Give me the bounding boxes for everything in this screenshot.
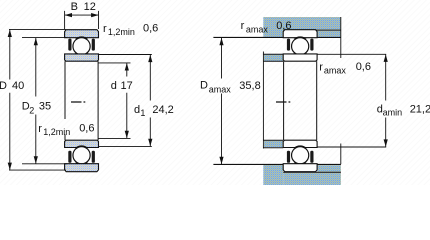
mounted inner ring bottom groove: [291, 146, 310, 165]
bearing outer ring bottom: [65, 164, 99, 172]
inner ring bottom groove: [72, 146, 91, 165]
svg-text:amin: amin: [383, 108, 403, 118]
mounted seal slot left bottom: [287, 151, 290, 163]
dimension Damax: line: [221, 38, 223, 164]
housing bottom band: [283, 173, 341, 185]
axis center mark: [71, 101, 85, 103]
shaft shoulder bottom outline: [263, 140, 283, 148]
svg-text:17: 17: [121, 80, 133, 92]
svg-text:0,6: 0,6: [276, 20, 291, 32]
housing shoulder line top (Da level): [213, 36, 341, 38]
dimension damin: extension lines: [317, 54, 386, 147]
mounted ball bottom: [292, 147, 309, 164]
housing shoulder line bottom (Da level): [213, 163, 341, 165]
outer ring top groove: [72, 37, 91, 56]
mounted seal slot right bottom: [310, 151, 313, 163]
svg-text:amax: amax: [246, 24, 269, 34]
mounted seal slot left top: [287, 39, 290, 51]
svg-text:0,6: 0,6: [79, 123, 94, 135]
seal slot right bottom: [92, 151, 95, 163]
svg-text:amax: amax: [324, 66, 347, 76]
svg-text:35: 35: [39, 101, 51, 113]
housing shoulder bottom-right: [317, 165, 341, 172]
svg-text:r: r: [38, 123, 42, 135]
svg-text:r: r: [103, 23, 107, 35]
housing shoulder top-left: [263, 29, 283, 37]
dimension B: line: [65, 14, 99, 16]
svg-text:D: D: [200, 80, 208, 92]
dimension d: arrows: [125, 63, 129, 138]
bearing inner ring bottom: [65, 140, 99, 147]
axis center mark right: [276, 101, 290, 103]
housing cut edge right: [340, 17, 342, 58]
housing bore line top: [283, 29, 341, 31]
svg-text:40: 40: [12, 80, 24, 92]
svg-text:d: d: [111, 80, 117, 92]
mounted seal slot right top: [310, 39, 313, 51]
svg-text:2: 2: [29, 105, 34, 115]
housing cut edge bottom-right: [340, 144, 342, 165]
seal slot left bottom: [68, 151, 71, 163]
svg-text:d: d: [134, 104, 140, 116]
shaft shoulder top outline: [263, 54, 283, 61]
dimension damin: arrows: [384, 55, 388, 147]
svg-text:amax: amax: [209, 84, 232, 94]
svg-text:0,6: 0,6: [356, 61, 371, 73]
mounted bearing right face line: [316, 61, 318, 140]
shaft shoulder top: [264, 55, 283, 61]
svg-text:35,8: 35,8: [239, 80, 260, 92]
housing bore line bottom: [283, 171, 341, 173]
svg-text:r: r: [319, 61, 323, 73]
ball bottom: [73, 147, 90, 164]
dimension D: arrows: [8, 30, 12, 170]
dimension Damax: arrows: [219, 38, 223, 164]
svg-text:21,2: 21,2: [410, 103, 430, 115]
dimension D: line: [9, 30, 11, 170]
dimension D2: arrows: [34, 38, 38, 164]
mounted ball top: [292, 38, 309, 55]
svg-text:1,2min: 1,2min: [43, 127, 70, 137]
svg-text:D: D: [0, 80, 7, 92]
svg-text:0,6: 0,6: [143, 23, 158, 35]
bearing inner ring top: [65, 54, 99, 61]
bearing outer ring top: [65, 30, 99, 38]
dimension d1: arrows: [148, 55, 152, 147]
mounted inner ring bottom: [283, 140, 317, 147]
svg-text:24,2: 24,2: [152, 104, 173, 116]
dimension D2: extension lines: [22, 38, 67, 164]
svg-text:r: r: [241, 20, 245, 32]
housing shoulder top-right: [317, 31, 341, 37]
seal slot right top: [92, 39, 95, 51]
bearing right face line: [97, 61, 99, 140]
shaft cut edge: [262, 52, 264, 149]
bearing left face line: [64, 61, 66, 140]
dimension D: extension lines: [9, 29, 66, 170]
mounted inner ring top: [283, 54, 317, 61]
mounted bearing outer ring bottom: [283, 164, 317, 172]
mounted outer ring top groove: [291, 37, 310, 56]
seal slot left top: [68, 39, 71, 51]
dimension d: extension lines: [99, 63, 131, 138]
housing shoulder bottom-left: [263, 165, 283, 185]
mounted bearing outer ring top: [283, 30, 317, 38]
housing top band: [263, 17, 341, 30]
dimension damin: line: [385, 55, 387, 147]
dimension d1: extension lines: [99, 55, 152, 147]
dimension d: line: [126, 63, 128, 138]
dimension D2: line: [35, 38, 37, 164]
ball top: [73, 38, 90, 55]
svg-text:1: 1: [140, 108, 145, 118]
dimension B: arrows: [65, 13, 99, 17]
dimension d1: line: [149, 55, 151, 147]
svg-text:12: 12: [84, 1, 96, 13]
dimension B: extension lines: [65, 11, 99, 29]
mounted bearing left face line: [283, 61, 285, 140]
svg-text:1,2min: 1,2min: [108, 27, 135, 37]
shaft shoulder bottom: [264, 141, 283, 147]
svg-text:B: B: [71, 1, 78, 13]
